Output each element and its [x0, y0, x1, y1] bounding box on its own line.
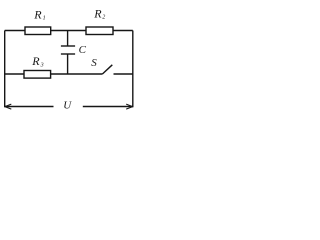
svg-text:C: C [79, 44, 87, 56]
svg-text:U: U [63, 100, 72, 112]
svg-text:R: R [31, 54, 40, 68]
svg-text:1: 1 [43, 16, 46, 22]
svg-text:S: S [91, 57, 97, 69]
svg-text:3: 3 [40, 62, 44, 68]
svg-text:R: R [33, 7, 42, 21]
svg-text:R: R [93, 6, 102, 20]
svg-text:2: 2 [102, 15, 105, 21]
